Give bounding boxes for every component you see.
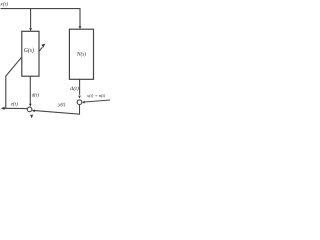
svg-text:d(t): d(t) xyxy=(32,93,40,98)
svg-text:d(t): d(t) xyxy=(70,85,79,92)
svg-text:N(s): N(s) xyxy=(76,50,86,57)
svg-text:s(t) + n(t): s(t) + n(t) xyxy=(87,93,106,98)
svg-text:G(s): G(s) xyxy=(24,47,34,54)
svg-text:e(t): e(t) xyxy=(11,103,18,108)
svg-text:y(t): y(t) xyxy=(57,101,65,108)
svg-text:x(t): x(t) xyxy=(0,1,8,8)
